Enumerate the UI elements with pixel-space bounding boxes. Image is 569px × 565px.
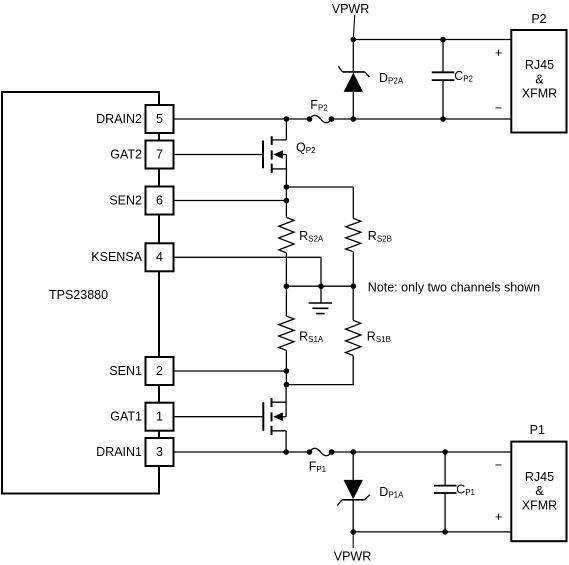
svg-text:XFMR: XFMR bbox=[522, 87, 557, 101]
svg-text:4: 4 bbox=[156, 250, 163, 264]
svg-text:KSENSA: KSENSA bbox=[91, 250, 142, 264]
svg-text:−: − bbox=[495, 458, 502, 472]
svg-text:RJ45: RJ45 bbox=[525, 58, 554, 72]
connector P1 box bbox=[511, 442, 566, 542]
svg-text:P2: P2 bbox=[531, 12, 546, 26]
wire GAT2 pin7 to Q2 gate bbox=[174, 154, 264, 156]
wire VPWR bottom rail to P1 box (positive rail) bbox=[353, 531, 511, 533]
resistor RS2A bbox=[279, 217, 294, 252]
transistor QP1 MOSFET bbox=[263, 385, 286, 452]
wire SEN2 pin6 to sense node bbox=[174, 200, 287, 202]
svg-text:RJ45: RJ45 bbox=[525, 470, 554, 484]
svg-text:3: 3 bbox=[156, 445, 163, 459]
pin box 2 SEN1 bbox=[146, 357, 174, 385]
wire VPWR bottom stub bbox=[352, 532, 354, 548]
capacitor CP2 bbox=[432, 40, 455, 120]
pin box 3 DRAIN1 bbox=[146, 438, 174, 466]
svg-text:+: + bbox=[495, 510, 502, 524]
node junction cap CP2 on VPWR rail bbox=[440, 37, 446, 43]
node ground rail middle dot bbox=[318, 283, 324, 289]
node junction zener DP1A on DRAIN1 wire bbox=[350, 449, 356, 455]
resistor RS1B bbox=[346, 320, 361, 355]
svg-text:TPS23880: TPS23880 bbox=[49, 288, 108, 302]
svg-text:DRAIN1: DRAIN1 bbox=[96, 445, 142, 459]
node SEN2 junction bbox=[284, 198, 290, 204]
fuse FP1 squiggle bbox=[310, 448, 332, 455]
capacitor CP1 bbox=[434, 452, 457, 532]
wire RS1B top lead bbox=[352, 286, 354, 320]
wire SEN1 pin2 to sense node bbox=[174, 370, 287, 372]
node VPWR junction dot bbox=[351, 37, 357, 43]
ground symbol bbox=[309, 286, 333, 313]
node VPWR bottom junction bbox=[350, 529, 356, 535]
wire VPWR rail to P2 box (positive rail) bbox=[353, 39, 511, 41]
wire GAT1 pin1 to Q1 gate bbox=[174, 416, 264, 418]
wire ground rail bbox=[286, 285, 353, 287]
svg-text:XFMR: XFMR bbox=[522, 498, 557, 512]
wire RS1A bottom to Q1 source node bbox=[285, 350, 287, 384]
pin box 1 GAT1 bbox=[146, 403, 174, 431]
pin box 6 SEN2 bbox=[146, 187, 174, 215]
svg-text:VPWR: VPWR bbox=[332, 2, 370, 16]
svg-text:SEN1: SEN1 bbox=[109, 364, 142, 378]
svg-text:Note: only two channels shown: Note: only two channels shown bbox=[368, 281, 540, 295]
svg-text:−: − bbox=[495, 101, 502, 115]
svg-text:2: 2 bbox=[156, 364, 163, 378]
svg-text:&: & bbox=[535, 73, 544, 87]
transistor QP2 MOSFET bbox=[263, 119, 286, 187]
node SEN1 junction bbox=[284, 368, 290, 374]
pin box 5 DRAIN2 bbox=[146, 105, 174, 133]
wire fuse FP1 to P1 box (negative rail) bbox=[332, 451, 512, 453]
node ground rail right dot bbox=[351, 283, 357, 289]
wire DRAIN2 pin5 to fuse bbox=[174, 118, 310, 120]
wire sense node down to RS2A bbox=[285, 187, 287, 217]
fuse FP1 right dot bbox=[329, 449, 335, 455]
svg-text:GAT2: GAT2 bbox=[110, 147, 142, 161]
svg-text:1: 1 bbox=[156, 410, 163, 424]
node Q1 source junction bbox=[284, 382, 290, 388]
connector P2 box bbox=[511, 30, 566, 133]
svg-text:GAT1: GAT1 bbox=[110, 410, 142, 424]
pin box 7 GAT2 bbox=[146, 141, 174, 169]
node junction cap CP2 on DRAIN2 wire bbox=[440, 116, 446, 122]
wire RS1B bottom lead to source node bbox=[286, 356, 353, 385]
node junction cap CP1 on DRAIN1 wire bbox=[442, 449, 448, 455]
wire RS2A bottom to ground rail bbox=[285, 253, 287, 286]
svg-text:+: + bbox=[495, 46, 502, 60]
svg-text:&: & bbox=[535, 484, 544, 498]
wire RS2B top lead bbox=[352, 187, 354, 218]
fuse FP2 squiggle bbox=[310, 115, 332, 122]
fuse FP2 left dot bbox=[307, 116, 313, 122]
resistor RS2B bbox=[346, 218, 361, 251]
wire Q2 source to RS2B top bbox=[286, 186, 353, 188]
svg-text:7: 7 bbox=[156, 147, 163, 161]
svg-text:6: 6 bbox=[156, 193, 163, 207]
svg-text:DRAIN2: DRAIN2 bbox=[96, 112, 142, 126]
wire fuse FP2 to P2 box (negative rail) bbox=[332, 118, 512, 120]
node junction Q2 drain on DRAIN2 wire bbox=[284, 116, 290, 122]
zener diode DP2A bbox=[338, 40, 369, 120]
svg-text:P1: P1 bbox=[530, 423, 545, 437]
zener diode DP1A bbox=[337, 452, 370, 532]
wire RS1A top lead bbox=[285, 286, 287, 316]
svg-text:VPWR: VPWR bbox=[334, 549, 372, 563]
wire RS2B bottom to ground rail bbox=[352, 252, 354, 287]
wire DRAIN1 pin3 to fuse bbox=[174, 451, 310, 453]
node junction zener DP2A on DRAIN2 wire bbox=[351, 116, 357, 122]
node Q2 source junction bbox=[284, 184, 290, 190]
IC U1 TPS23880 main box bbox=[2, 92, 159, 494]
wire VPWR leader bbox=[353, 15, 354, 40]
svg-text:5: 5 bbox=[156, 112, 163, 126]
fuse FP2 right dot bbox=[329, 116, 335, 122]
resistor RS1A bbox=[279, 316, 294, 350]
fuse FP1 left dot bbox=[307, 449, 313, 455]
node ground rail left dot bbox=[284, 283, 290, 289]
svg-text:SEN2: SEN2 bbox=[109, 193, 142, 207]
pin box 4 KSENSA bbox=[146, 243, 174, 271]
wire KSENSA pin4 to ground stem bbox=[174, 257, 322, 286]
node Q1 drain junction on DRAIN1 wire bbox=[283, 449, 289, 455]
node junction cap CP1 on bottom rail bbox=[442, 529, 448, 535]
